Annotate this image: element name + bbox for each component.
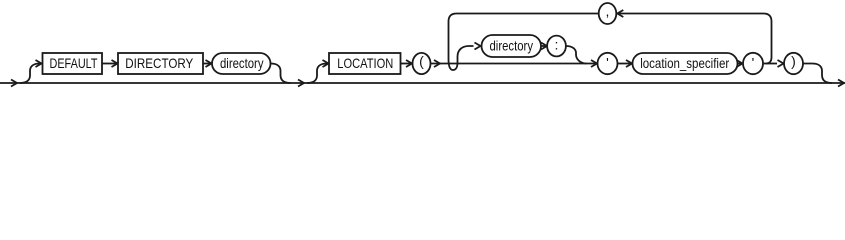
arrowhead into :: [541, 43, 547, 50]
wire loop: up-branch right side, top line, left side down, U-turn, rise to directory row: [449, 14, 772, 71]
svg-text:DIRECTORY: DIRECTORY: [125, 55, 194, 71]
wire directory to :: [541, 45, 547, 47]
circle ' (second quote): [743, 53, 763, 74]
circle , (comma in loop): [599, 3, 617, 24]
svg-text:DEFAULT: DEFAULT: [50, 55, 98, 71]
circle :: [547, 36, 566, 57]
svg-text:location_specifier: location_specifier: [640, 55, 729, 71]
wire location_specifier to second quote: [738, 63, 743, 65]
oval location_specifier: [633, 53, 738, 74]
arrowhead at end of main line: [838, 80, 844, 87]
wire branch up to DEFAULT row: [20, 64, 40, 84]
wire down from : to quote row: [566, 46, 587, 64]
svg-text::: :: [555, 37, 559, 53]
arrowhead into ): [778, 60, 784, 67]
svg-text:directory: directory: [220, 55, 264, 71]
wire branch up to LOCATION row: [307, 64, 327, 84]
arrowhead into directory oval: [206, 60, 212, 67]
arrowhead into location_specifier: [626, 60, 632, 67]
circle (: [413, 53, 431, 74]
box DIRECTORY: [118, 53, 203, 74]
wire inner row from ( to ': [431, 63, 598, 65]
wire down from directory oval to main line: [271, 64, 291, 84]
wire second quote to ) with loop junction: [763, 63, 777, 65]
arrowhead into DIRECTORY: [112, 60, 118, 67]
svg-text:,: ,: [606, 3, 610, 19]
circle ' (first quote): [598, 53, 618, 74]
wire main bottom line: [0, 82, 845, 84]
arrowhead into LOCATION: [323, 60, 329, 67]
arrowhead into second quote: [737, 60, 743, 67]
svg-text:LOCATION: LOCATION: [337, 55, 393, 71]
wire quote to location_specifier: [618, 63, 632, 65]
arrowhead into DEFAULT: [36, 60, 42, 67]
oval directory (inside loop): [482, 35, 542, 57]
wire down from ) to main line: [803, 64, 832, 84]
arrowhead into loop directory oval: [475, 43, 481, 50]
wire DEFAULT to DIRECTORY: [102, 63, 117, 65]
arrowhead into first quote: [591, 60, 597, 67]
box LOCATION: [329, 53, 401, 74]
arrowhead on main line between groups: [298, 80, 304, 87]
box DEFAULT: [43, 53, 103, 74]
svg-text:': ': [606, 54, 609, 70]
svg-text:(: (: [419, 53, 424, 69]
arrowhead left-pointing on loop line: [617, 10, 623, 17]
svg-text:directory: directory: [490, 38, 534, 54]
circle ): [784, 53, 803, 74]
oval directory: [212, 53, 271, 74]
arrowhead entry on main line: [11, 80, 17, 87]
wire DIRECTORY to directory oval: [203, 63, 211, 65]
arrowhead into (: [406, 60, 412, 67]
svg-text:': ': [752, 54, 755, 70]
svg-text:): ): [791, 53, 796, 69]
arrowhead after (: [434, 60, 440, 67]
wire LOCATION to (: [401, 63, 412, 65]
